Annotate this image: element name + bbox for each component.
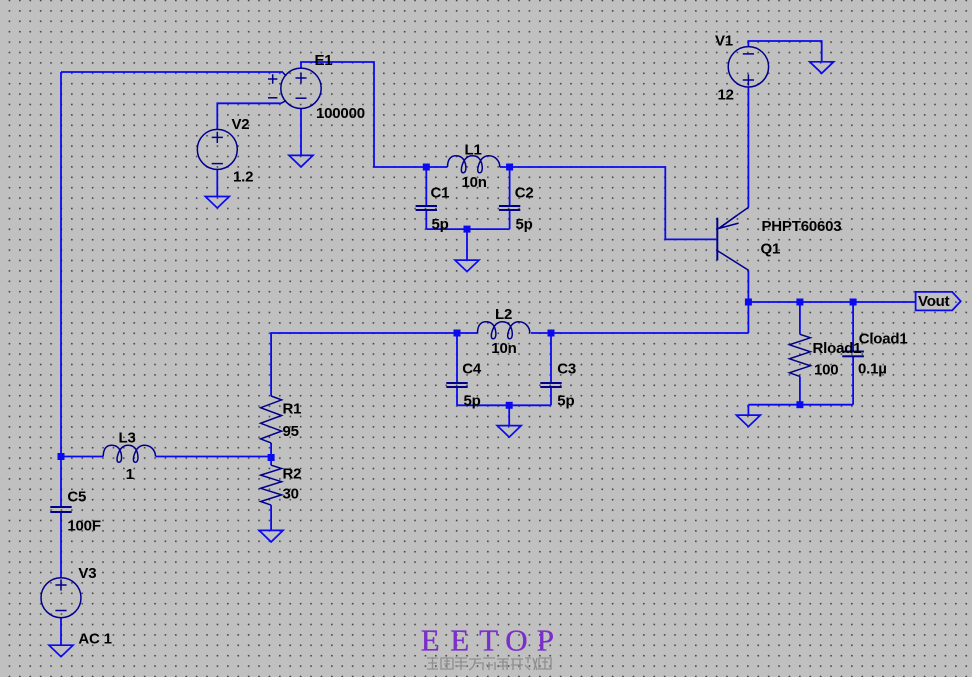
svg-text:C1: C1: [431, 184, 450, 201]
inductor L2: [478, 322, 530, 339]
inductor L1: [448, 156, 500, 173]
wire left vertical rail: [60, 72, 62, 457]
wire C4: [456, 333, 458, 382]
wire rail to ground: [466, 229, 468, 260]
wire V3 bottom to ground: [60, 618, 62, 645]
node Rload top: [796, 299, 803, 306]
svg-text:95: 95: [283, 423, 299, 440]
wire E1 bottom to ground: [300, 109, 302, 156]
node left rail L3: [58, 453, 65, 460]
svg-text:5p: 5p: [557, 393, 574, 410]
transistor Q1 PHPT60603: [717, 207, 748, 270]
svg-text:Vout: Vout: [918, 293, 950, 310]
wire Rload bottom: [799, 376, 801, 404]
wire L1 row to Q1 base: [510, 167, 716, 239]
inductor L3: [103, 445, 155, 462]
svg-text:10n: 10n: [491, 340, 516, 357]
svg-text:100000: 100000: [316, 105, 365, 122]
ground at V3: [49, 645, 73, 657]
node collector: [745, 299, 752, 306]
wire C1-C2 bottom rail: [426, 228, 509, 230]
node L1 right: [506, 164, 513, 171]
ground at V2: [205, 197, 229, 209]
svg-text:AC 1: AC 1: [78, 631, 111, 648]
voltage source V3: [41, 578, 81, 618]
svg-text:30: 30: [283, 485, 299, 502]
svg-text:L3: L3: [119, 430, 136, 447]
wire R1 bottom to junction: [270, 443, 272, 465]
svg-text:5p: 5p: [516, 216, 533, 233]
wire L1 left stub: [426, 166, 447, 168]
svg-text:E: E: [421, 623, 440, 658]
svg-text:0.1µ: 0.1µ: [858, 361, 887, 378]
svg-text:E1: E1: [315, 52, 333, 69]
svg-text:C4: C4: [462, 361, 482, 378]
ground at C1C2 rail: [455, 260, 479, 272]
wire rail to ground: [508, 405, 510, 425]
resistor Rload1: [789, 334, 810, 376]
svg-text:T: T: [479, 623, 498, 658]
wire C5 bottom to V3: [60, 513, 62, 578]
vcvs E1: [268, 68, 321, 108]
junction node squares: [58, 164, 857, 462]
node L2 left: [454, 330, 461, 337]
wire C4-C3 bottom rail: [457, 404, 551, 406]
resistor R2: [261, 465, 282, 505]
svg-text:5p: 5p: [432, 216, 449, 233]
svg-text:E: E: [450, 623, 469, 658]
svg-text:5p: 5p: [464, 393, 481, 410]
wire C1: [425, 167, 427, 205]
node R1R2: [268, 454, 275, 461]
watermark EETOP: [421, 623, 554, 658]
svg-text:10n: 10n: [462, 174, 487, 191]
svg-text:L2: L2: [495, 306, 512, 323]
wire V2 bottom to ground: [216, 169, 218, 196]
ground at R2: [259, 530, 283, 542]
resistor R1: [261, 396, 282, 443]
wire top-left horizontal to E1 plus input: [61, 71, 283, 73]
svg-text:C2: C2: [515, 184, 534, 201]
wire Cload top: [852, 302, 854, 352]
net flag Vout: [916, 292, 961, 311]
svg-text:L1: L1: [465, 142, 482, 159]
svg-text:Q1: Q1: [761, 241, 781, 258]
svg-text:V2: V2: [232, 116, 250, 133]
wire C3: [550, 333, 552, 382]
wire V2 top to E1 minus input: [217, 103, 281, 130]
node Cload top: [850, 299, 857, 306]
wire L2 row left to R1: [457, 332, 478, 334]
svg-text:O: O: [505, 623, 527, 658]
wire collector junction to L2 row: [747, 302, 749, 333]
wire V1 minus to ground: [748, 41, 821, 62]
svg-text:Cload1: Cload1: [859, 331, 908, 348]
svg-text:V3: V3: [78, 565, 96, 582]
capacitor C2: [499, 205, 520, 211]
wire L1 right stub: [500, 166, 510, 168]
svg-text:12: 12: [718, 87, 734, 104]
capacitor C4: [446, 382, 467, 388]
wire Q1 collector down: [747, 270, 749, 302]
wire Vout row: [748, 301, 915, 303]
wire Cload bottom: [852, 356, 854, 404]
svg-text:1.2: 1.2: [233, 168, 253, 185]
ground at Rload rail: [736, 415, 760, 427]
wire L2 right stub: [531, 332, 551, 334]
ground at C4C3 rail: [497, 426, 521, 438]
svg-text:V1: V1: [715, 32, 733, 49]
voltage source V1 (flipped): [728, 47, 768, 87]
wire C5 top: [60, 457, 62, 507]
svg-text:C5: C5: [67, 489, 86, 506]
svg-text:P: P: [537, 623, 554, 658]
wire V1 plus to Q1 emitter: [747, 87, 749, 207]
capacitor C3: [540, 382, 561, 388]
node Rload bottom: [796, 401, 803, 408]
svg-text:100F: 100F: [67, 518, 100, 535]
node C1C2 gnd: [464, 226, 471, 233]
svg-text:PHPT60603: PHPT60603: [762, 218, 842, 235]
capacitor Cload1: [842, 351, 864, 358]
capacitor C1: [416, 205, 437, 211]
wire E1 output to L1 block: [301, 62, 426, 167]
svg-text:Rload1: Rload1: [813, 340, 862, 357]
ground at E1: [289, 155, 313, 167]
ground at V1: [810, 62, 834, 74]
svg-text:C3: C3: [557, 361, 576, 378]
wire R2 bottom to ground: [270, 505, 272, 530]
svg-text:R2: R2: [283, 465, 302, 482]
wire C2: [509, 167, 511, 205]
wire L3 row: [61, 456, 103, 458]
capacitor C5: [50, 506, 71, 513]
wire L2 row right: [551, 332, 748, 334]
voltage source V2: [197, 129, 237, 169]
wire Rload bottom rail to ground: [748, 404, 853, 406]
svg-text:100: 100: [814, 362, 838, 379]
node L2 right: [548, 330, 555, 337]
node L1 left: [423, 164, 430, 171]
svg-text:1: 1: [126, 466, 134, 483]
wire Rload top: [799, 302, 801, 334]
svg-text:R1: R1: [283, 400, 302, 417]
watermark Chinese subtitle: [427, 657, 551, 670]
node C4C3 gnd: [506, 402, 513, 409]
